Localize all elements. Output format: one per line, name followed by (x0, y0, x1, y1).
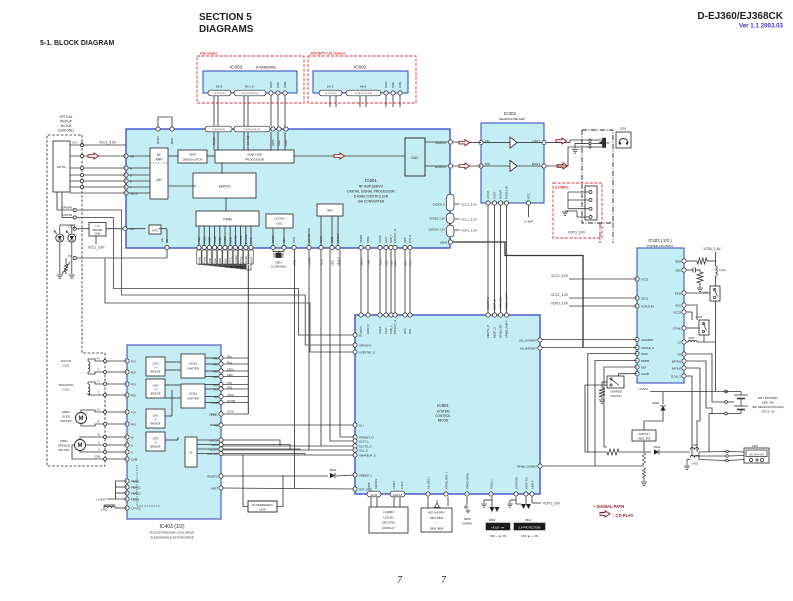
svg-text:DAC: DAC (411, 156, 419, 160)
svg-text:XCPSTBY_O: XCPSTBY_O (359, 350, 375, 354)
svg-text:IC403 (1/2): IC403 (1/2) (159, 524, 184, 530)
svg-text:T-: T- (98, 391, 100, 395)
svg-text:VCC1_3.3V: VCC1_3.3V (88, 246, 106, 250)
svg-text:SLED: SLED (62, 415, 71, 419)
svg-text:: CD PLAY: : CD PLAY (613, 513, 634, 518)
svg-text:IC403 ( 2/2 ): IC403 ( 2/2 ) (648, 238, 672, 243)
svg-text:BATIN2: BATIN2 (672, 366, 682, 370)
svg-text:(OPEN): (OPEN) (462, 522, 472, 526)
svg-text:SLVBL: SLVBL (244, 255, 248, 263)
svg-text:V: V (131, 450, 133, 454)
svg-text:CHGB: CHGB (641, 372, 649, 376)
svg-text:CHG: CHG (153, 362, 159, 366)
svg-text:DVDDV 1.5V: DVDDV 1.5V (429, 228, 445, 232)
svg-text:DVDD3 O: DVDD3 O (433, 203, 446, 207)
svg-text:MOTOR: MOTOR (60, 419, 72, 423)
svg-text:(DAX-05E): (DAX-05E) (58, 129, 73, 133)
svg-text:SYNC: SYNC (239, 256, 243, 263)
svg-text:LDACO: LDACO (436, 141, 447, 145)
svg-text:OPSTB: OPSTB (63, 213, 73, 217)
svg-text:FOCUS/TRACKING COIL DRIVE: FOCUS/TRACKING COIL DRIVE (150, 531, 195, 535)
svg-text:SYNC: SYNC (227, 410, 234, 414)
svg-text:SL I: SL I (359, 423, 364, 427)
svg-text:D-RAM(RAM): D-RAM(RAM) (256, 66, 276, 70)
svg-text:(9-13,15-19,21,6): (9-13,15-19,21,6) (242, 93, 259, 95)
svg-text:SERVO: SERVO (219, 185, 231, 189)
svg-text:H: H (155, 418, 157, 422)
svg-text:C405: C405 (701, 291, 708, 295)
svg-text:SLOTO_O: SLOTO_O (359, 444, 372, 448)
svg-text:PWM: PWM (223, 218, 231, 222)
svg-text:XWAKEUP_O: XWAKEUP_O (359, 453, 376, 457)
svg-text:SEDI: SEDI (330, 236, 334, 243)
svg-text:DEMODULATOR: DEMODULATOR (183, 158, 203, 162)
svg-text:SLED/SPINDLE MOTOR DRIVE: SLED/SPINDLE MOTOR DRIVE (150, 536, 193, 540)
svg-text:S0-S1: S0-S1 (371, 495, 378, 497)
svg-text:RF: RF (157, 153, 161, 157)
svg-text:VCC1_3.2V: VCC1_3.2V (551, 293, 569, 297)
svg-text:A0-1 0: A0-1 0 (245, 85, 254, 89)
svg-text:XPDWLT_O: XPDWLT_O (359, 435, 374, 439)
svg-text:DRIVER: DRIVER (93, 228, 103, 232)
svg-text:+V BAT: +V BAT (638, 387, 648, 391)
svg-text:(2,3,24,25): (2,3,24,25) (214, 93, 225, 95)
svg-text:POL: POL (408, 328, 412, 334)
svg-text:OPTIC: OPTIC (57, 165, 67, 169)
svg-text:RVOUT: RVOUT (499, 190, 503, 199)
svg-text:16.934 MHz: 16.934 MHz (271, 265, 287, 269)
svg-text:H: H (155, 441, 157, 445)
svg-text:AD_BATINMT: AD_BATINMT (520, 346, 537, 350)
svg-text:HOLD −►: HOLD −► (492, 525, 505, 529)
svg-text:COM 0: COM 0 (392, 480, 396, 489)
svg-text:L410: L410 (719, 268, 726, 272)
svg-text:CONTROL: CONTROL (435, 414, 451, 418)
svg-text:MOTOR: MOTOR (58, 448, 70, 452)
svg-text:HPS/LCDV: HPS/LCDV (499, 296, 503, 310)
svg-text:CMD: CMD (95, 232, 101, 236)
svg-text:LEVEL: LEVEL (189, 362, 198, 366)
svg-text:D0-3: D0-3 (216, 85, 223, 89)
svg-text:XRST: XRST (211, 486, 218, 490)
svg-text:NPWD_DCINMT: NPWD_DCINMT (517, 464, 538, 468)
svg-text:U: U (98, 448, 100, 452)
svg-text:KEY MATRIX: KEY MATRIX (428, 511, 445, 515)
svg-text:IC801: IC801 (437, 403, 449, 408)
svg-text:DC IN 4.5V: DC IN 4.5V (749, 452, 764, 456)
svg-text:FRAb: FRAb (197, 256, 201, 263)
svg-text:SWITCH: SWITCH (610, 394, 621, 398)
svg-text:H: H (155, 366, 157, 370)
svg-text:• SIGNAL PATH: • SIGNAL PATH (594, 504, 624, 509)
svg-text:(LP PROTECTION): (LP PROTECTION) (519, 526, 541, 529)
svg-text:VCCB: VCCB (674, 310, 682, 314)
svg-text:D905: D905 (652, 401, 659, 405)
svg-text:XMUTE_O: XMUTE_O (486, 297, 490, 310)
svg-text:S902, 903: S902, 903 (638, 436, 651, 440)
svg-text:D0-3: D0-3 (327, 85, 334, 89)
svg-text:SRA: SRA (223, 258, 227, 264)
svg-text:VCC3: VCC3 (641, 277, 649, 281)
svg-text:PWM3: PWM3 (131, 497, 140, 501)
svg-text:LG: LG (677, 340, 681, 344)
svg-text:S801 S805: S801 S805 (430, 516, 444, 520)
svg-text:+V BAT: +V BAT (523, 220, 533, 224)
svg-text:SHIFTER: SHIFTER (187, 367, 199, 371)
svg-text:BRIDGE: BRIDGE (151, 392, 161, 396)
svg-text:VCC2_3.0V: VCC2_3.0V (461, 203, 477, 207)
svg-text:XMUTE_O: XMUTE_O (486, 325, 490, 338)
svg-text:SEOUT: SEOUT (336, 233, 340, 243)
svg-text:M: M (79, 416, 84, 422)
svg-text:J401: J401 (752, 444, 759, 448)
svg-text:S+: S+ (97, 408, 101, 412)
svg-text:DIAGRAMS: DIAGRAMS (199, 24, 254, 35)
svg-text:SCL_O: SCL_O (359, 448, 368, 452)
svg-text:IC603: IC603 (230, 65, 243, 70)
svg-text:ROI: ROI (131, 393, 136, 397)
svg-text:XOUT: XOUT (271, 235, 275, 243)
svg-text:D-RAM CONTROLLER: D-RAM CONTROLLER (354, 195, 389, 199)
svg-text:J301: J301 (620, 127, 627, 131)
svg-text:Ver 1.1 2003.03: Ver 1.1 2003.03 (739, 23, 784, 30)
svg-text:XPWD OPEN: XPWD OPEN (465, 473, 469, 489)
svg-text:M902: M902 (62, 410, 70, 414)
svg-text:HPS: HPS (403, 237, 407, 243)
svg-text:APC: APC (152, 229, 159, 233)
svg-text:XPWD_KEY_I: XPWD_KEY_I (444, 472, 448, 489)
svg-text:FOI: FOI (131, 410, 136, 414)
svg-text:LVOUT: LVOUT (486, 190, 490, 199)
svg-text:STVAL: STVAL (673, 326, 682, 330)
svg-text:PWM1: PWM1 (131, 479, 140, 483)
svg-text:AMP: AMP (156, 158, 163, 162)
svg-text:RESETO: RESETO (207, 474, 218, 478)
svg-text:POR_O: POR_O (366, 325, 370, 334)
svg-text:S10B: S10B (367, 482, 371, 489)
svg-text:VCC1_3.3V: VCC1_3.3V (99, 141, 117, 145)
svg-text:SEM: SEM (675, 259, 682, 263)
svg-text:RF AMP,SERVO: RF AMP,SERVO (359, 185, 384, 189)
svg-text:SQCK: SQCK (378, 326, 382, 334)
svg-text:SEE “A5”: SEE “A5” (762, 401, 775, 405)
svg-text:SUB_J: SUB_J (389, 234, 393, 243)
svg-text:XLAT: XLAT (384, 327, 388, 334)
svg-text:CHG: CHG (153, 384, 159, 388)
svg-text:S-: S- (97, 420, 100, 424)
svg-text:HPS/LCDV: HPS/LCDV (499, 324, 503, 338)
svg-text:HEADPHONE AMP: HEADPHONE AMP (499, 117, 525, 121)
svg-text:PWRB: PWRB (641, 359, 649, 363)
svg-text:L401: L401 (692, 443, 699, 447)
svg-text:CHG: CHG (153, 414, 159, 418)
svg-text:U: U (131, 443, 133, 447)
svg-text:POL O: POL O (408, 235, 412, 243)
svg-text:ROI: ROI (131, 370, 136, 374)
svg-text:5-1. BLOCK DIAGRAM: 5-1. BLOCK DIAGRAM (40, 40, 114, 47)
svg-text:CRYSTAL: CRYSTAL (382, 521, 396, 525)
svg-text:SQCK: SQCK (378, 235, 382, 243)
svg-text:CLVDP: CLVDP (234, 255, 238, 264)
svg-text:XRESET_I: XRESET_I (359, 473, 372, 477)
svg-text:MICON: MICON (438, 419, 449, 423)
svg-text:(57-59,61-64,1,2): (57-59,61-64,1,2) (244, 129, 261, 131)
svg-text:M901: M901 (60, 439, 68, 443)
svg-text:VCPU_1.5V: VCPU_1.5V (461, 229, 477, 233)
svg-text:LCD 3: LCD 3 (400, 481, 404, 489)
svg-text:IC602: IC602 (354, 65, 367, 70)
svg-text:VCC: VCC (527, 193, 531, 199)
svg-text:POWER CONTROL: POWER CONTROL (647, 244, 674, 248)
svg-text:ADIN F: ADIN F (530, 480, 534, 489)
svg-text:CPOL: CPOL (229, 256, 233, 264)
svg-text:(LOMEX): (LOMEX) (555, 186, 568, 190)
svg-text:DIGITAL SIGNAL PROCESSOR: DIGITAL SIGNAL PROCESSOR (347, 190, 395, 194)
svg-text:VCPU_3.0V: VCPU_3.0V (568, 231, 586, 235)
svg-text:US model: US model (200, 52, 218, 56)
svg-text:XRST: XRST (249, 256, 253, 263)
svg-text:DRY BATTERY: DRY BATTERY (758, 396, 779, 400)
svg-text:CP VCC: CP VCC (131, 506, 141, 510)
svg-text:CHGINMT: CHGINMT (641, 338, 654, 342)
svg-text:BLOCK: BLOCK (61, 124, 73, 128)
svg-text:XTSL: XTSL (292, 236, 296, 243)
svg-text:OPTICAL: OPTICAL (59, 115, 73, 119)
svg-text:F+: F+ (97, 357, 101, 361)
svg-text:XWS: XWS (271, 139, 275, 146)
svg-text:D/A CONVERTER: D/A CONVERTER (358, 200, 385, 204)
svg-text:RDACO: RDACO (435, 165, 447, 169)
svg-text:VCPU2.8V: VCPU2.8V (641, 304, 654, 308)
svg-text:SED: SED (675, 268, 681, 272)
svg-text:DCIN: DCIN (641, 352, 648, 356)
svg-text:TRACKING: TRACKING (58, 383, 74, 387)
svg-text:SYNC: SYNC (209, 412, 216, 416)
svg-text:TRB: TRB (208, 258, 212, 263)
svg-text:FOCUS: FOCUS (61, 359, 72, 363)
svg-text:XPWD_AMP F: XPWD_AMP F (505, 320, 509, 338)
svg-text:XLAT: XLAT (384, 236, 388, 243)
svg-text:2PCS, 3V: 2PCS, 3V (761, 410, 774, 414)
svg-text:XANC PU: XANC PU (524, 477, 528, 489)
svg-text:SRDM: SRDM (359, 234, 363, 243)
svg-text:SUB_J: SUB_J (389, 325, 393, 334)
svg-text:BRIDGE: BRIDGE (151, 445, 161, 449)
svg-text:HOLD_I: HOLD_I (489, 479, 493, 489)
svg-text:RFEO: RFEO (156, 135, 160, 144)
svg-text:LPPROSV: LPPROSV (514, 476, 518, 489)
svg-text:LEVEL: LEVEL (189, 392, 198, 396)
svg-text:PVSS: PVSS (493, 192, 497, 199)
svg-text:SRB: SRB (218, 258, 222, 264)
svg-text:VCC: VCC (675, 303, 681, 307)
svg-text:SEDI: SEDI (330, 260, 334, 266)
svg-text:SHIFTER: SHIFTER (187, 397, 199, 401)
svg-text:XWS: XWS (384, 81, 388, 88)
svg-text:L402: L402 (692, 462, 699, 466)
svg-text:CHIP: CHIP (259, 508, 266, 512)
svg-text:SCLK: SCLK (319, 236, 323, 243)
svg-text:SECTION 5: SECTION 5 (199, 12, 252, 23)
svg-text:D902: D902 (654, 445, 661, 449)
svg-text:AVDD2 2.5V: AVDD2 2.5V (429, 217, 445, 221)
svg-text:FRAa: FRAa (203, 256, 207, 263)
svg-text:XWS: XWS (269, 81, 273, 88)
svg-text:CLOCK: CLOCK (274, 217, 284, 221)
svg-text:VCPU_3.0V: VCPU_3.0V (543, 502, 561, 506)
svg-text:VCPU_3.0V: VCPU_3.0V (551, 302, 569, 306)
svg-text:COIL: COIL (62, 388, 69, 392)
svg-text:SUBCODE: SUBCODE (247, 153, 262, 157)
svg-text:SLOT_L: SLOT_L (359, 439, 370, 443)
svg-text:(BC DESIGNATION:LR6): (BC DESIGNATION:LR6) (752, 405, 784, 409)
svg-text:COIL: COIL (62, 364, 69, 368)
svg-text:S16/S19: S16/S19 (374, 478, 378, 489)
svg-text:XPWD_AMP F: XPWD_AMP F (505, 292, 509, 310)
svg-text:COM: COM (131, 457, 138, 461)
svg-text:D802: D802 (330, 468, 337, 472)
svg-text:VCC2_3.0V: VCC2_3.0V (551, 274, 569, 278)
svg-text:PROCESSOR: PROCESSOR (245, 158, 265, 162)
svg-text:DER: DER (170, 138, 174, 144)
svg-text:BEEP_O: BEEP_O (493, 299, 497, 310)
svg-text:COM 0-3: COM 0-3 (393, 495, 403, 497)
svg-text:LIQUID: LIQUID (383, 515, 394, 519)
svg-text:D-EJ360/EJ368CK: D-EJ360/EJ368CK (697, 11, 783, 22)
svg-text:FOI: FOI (131, 359, 136, 363)
svg-text:SIO: SIO (327, 209, 333, 213)
svg-text:BATIN1: BATIN1 (672, 359, 682, 363)
svg-text:S809: S809 (464, 517, 471, 521)
svg-text:XIN: XIN (282, 238, 286, 243)
svg-text:VB: VB (677, 352, 681, 356)
svg-text:L403: L403 (101, 508, 108, 512)
svg-text:XOE: XOE (276, 82, 280, 88)
svg-text:T+: T+ (97, 380, 101, 384)
svg-text:VCC: VCC (72, 141, 78, 145)
svg-text:VCC1: VCC1 (641, 296, 649, 300)
svg-text:SRVO: SRVO (359, 326, 363, 334)
svg-text:OFF ►— ON: OFF ►— ON (521, 534, 538, 538)
svg-text:S811: S811 (525, 518, 532, 522)
svg-text:VCPU_1.5V: VCPU_1.5V (703, 247, 721, 251)
svg-text:AD_CHGINMT: AD_CHGINMT (519, 338, 537, 342)
svg-text:DISPLAY: DISPLAY (382, 526, 394, 530)
svg-text:A0-9: A0-9 (360, 85, 367, 89)
svg-text:XPFSW O: XPFSW O (359, 343, 371, 347)
svg-text:CHG: CHG (153, 437, 159, 441)
svg-text:EFM: EFM (189, 153, 196, 157)
svg-text:S810: S810 (489, 518, 496, 522)
svg-text:F-: F- (98, 368, 101, 372)
svg-text:DCIN_S: DCIN_S (671, 374, 681, 378)
svg-text:DET: DET (641, 365, 647, 369)
svg-text:OPSSW: OPSSW (62, 206, 73, 210)
svg-text:BRIDGE: BRIDGE (151, 422, 161, 426)
svg-text:RD: RD (160, 238, 164, 242)
svg-text:IC301: IC301 (504, 111, 517, 116)
svg-text:TRA: TRA (213, 258, 217, 263)
svg-text:VDHX: VDHX (440, 241, 448, 245)
svg-text:OFF —► ON: OFF —► ON (490, 534, 507, 538)
svg-text:(1,2,24,25): (1,2,24,25) (325, 93, 336, 95)
svg-text:M: M (78, 443, 83, 449)
svg-text:PVDD 2.8V: PVDD 2.8V (505, 185, 509, 199)
svg-text:COM: COM (94, 455, 100, 459)
svg-text:FOI: FOI (131, 382, 136, 386)
svg-text:EXCEPT US model: EXCEPT US model (311, 52, 345, 56)
svg-text:CS PERIPHERAL: CS PERIPHERAL (252, 503, 274, 507)
svg-text:PDFF: PDFF (366, 236, 370, 243)
svg-text:+V BAT: +V BAT (96, 498, 106, 502)
svg-text:V: V (98, 441, 100, 445)
svg-text:XWE: XWE (398, 81, 402, 88)
svg-text:(7,8,9,64,65): (7,8,9,64,65) (212, 129, 225, 131)
svg-text:OSC: OSC (276, 222, 283, 226)
svg-text:VCC1_3.2V: VCC1_3.2V (461, 218, 477, 222)
svg-text:ESW: ESW (675, 291, 682, 295)
svg-text:ROI: ROI (131, 422, 136, 426)
svg-text:↓ ↓: ↓ ↓ (435, 522, 438, 525)
svg-text:XWE: XWE (283, 81, 287, 88)
svg-text:EFFECT_O: EFFECT_O (393, 320, 397, 334)
svg-text:SPINDLE: SPINDLE (58, 444, 71, 448)
svg-text:(5,18-13,14-18,6): (5,18-13,14-18,6) (355, 93, 372, 95)
svg-text:EFFECT_O: EFFECT_O (393, 229, 397, 243)
svg-text:L D: L D (96, 224, 100, 228)
svg-text:S804 S808: S804 S808 (430, 527, 444, 531)
svg-text:IC601: IC601 (365, 178, 377, 183)
svg-text:LCD801: LCD801 (383, 510, 394, 514)
svg-text:XOE: XOE (391, 82, 395, 88)
svg-text:I/F: I/F (189, 451, 193, 455)
svg-text:AD_KEY_I: AD_KEY_I (426, 476, 430, 489)
svg-text:L404: L404 (688, 336, 695, 340)
svg-text:HPS: HPS (403, 328, 407, 334)
svg-text:PICKUP: PICKUP (60, 120, 72, 124)
svg-text:SYSTEM: SYSTEM (436, 410, 449, 414)
svg-text:A/D: A/D (156, 178, 162, 182)
svg-text:H: H (155, 388, 157, 392)
svg-text:BEEP_O: BEEP_O (493, 327, 497, 338)
svg-text:BRIDGE: BRIDGE (151, 370, 161, 374)
svg-text:XWAKE_O: XWAKE_O (641, 346, 654, 350)
